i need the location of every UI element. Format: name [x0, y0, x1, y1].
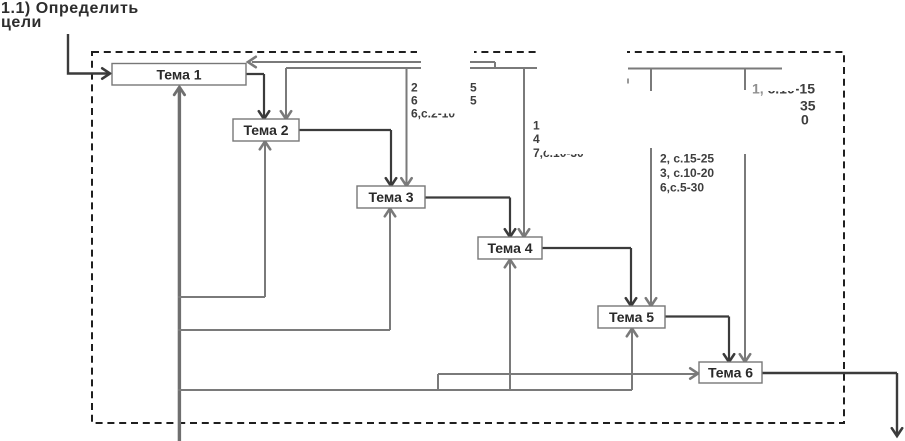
wire dark entry arrow into Тема 1	[68, 34, 109, 74]
node Тема 6	[699, 362, 762, 383]
label references left (partially erased)	[411, 81, 477, 121]
white patch over Тема 5 gray drop	[644, 91, 657, 148]
svg-text:1: 1	[533, 119, 540, 133]
wire gray feedback to Тема 4 bottom	[509, 260, 511, 390]
wire dark exit from Тема 6	[762, 373, 897, 435]
wire gray feedback to Тема 2 bottom	[178, 142, 265, 297]
wire dark Тема 4 to Тема 5	[542, 248, 631, 305]
wire gray drop into Тема 6 top	[744, 69, 746, 362]
svg-text:Тема 5: Тема 5	[609, 309, 654, 325]
wire gray return line A to Тема 1	[252, 62, 495, 69]
wire gray drop into Тема 4 top	[523, 68, 525, 236]
white patch over top border middle	[536, 44, 627, 60]
svg-text:5: 5	[470, 81, 477, 95]
wire dark Тема 1 to Тема 2	[246, 74, 264, 118]
node Тема 2	[233, 119, 299, 141]
svg-text:1,: 1,	[752, 81, 764, 97]
svg-text:Тема 2: Тема 2	[243, 122, 288, 138]
label references 2/3/6	[660, 152, 714, 195]
wire gray distribution line B	[286, 67, 537, 69]
svg-text:6,с.5-30: 6,с.5-30	[660, 181, 704, 195]
svg-text:3, с.10-20: 3, с.10-20	[660, 166, 714, 180]
arrow left into Тема 1 top-right	[248, 57, 256, 67]
white partial erase over small texts	[427, 105, 468, 114]
wire gray jog up to Тема 6 feed line	[437, 374, 439, 390]
wire dark Тема 3 to Тема 4	[425, 198, 510, 237]
label references middle (partially erased)	[533, 119, 584, 161]
svg-text:2: 2	[411, 81, 418, 95]
label references right (partially erased)	[752, 81, 816, 128]
svg-text:Тема 1: Тема 1	[156, 67, 201, 83]
node Тема 4	[478, 237, 542, 259]
node Тема 5	[598, 306, 665, 328]
tick mark	[627, 79, 629, 84]
svg-text:0: 0	[801, 112, 809, 128]
svg-text:цели: цели	[1, 14, 42, 31]
wire gray drop into Тема 2 top	[285, 68, 287, 118]
wire gray distribution line C (right section)	[628, 68, 782, 70]
white patch over left text block and border	[417, 44, 474, 59]
wire thick gray feedback trunk up into Тема 1 bottom	[178, 87, 181, 441]
svg-text:2, с.15-25: 2, с.15-25	[660, 152, 714, 166]
wire dark Тема 2 to Тема 3	[299, 130, 391, 185]
wire gray feedback to Тема 5 bottom	[631, 329, 633, 390]
svg-text:Тема 6: Тема 6	[708, 365, 753, 381]
wire gray feed into Тема 6 left	[438, 373, 697, 375]
svg-text:Тема 3: Тема 3	[368, 189, 413, 205]
wire gray feedback bus y=390	[178, 389, 632, 391]
white patch over Тема 6 gray drop	[738, 90, 751, 154]
svg-text:6: 6	[411, 94, 418, 108]
svg-text:4: 4	[533, 132, 540, 146]
wire dark Тема 5 to Тема 6	[665, 317, 729, 362]
wire gray feedback to Тема 3 bottom	[178, 209, 390, 330]
label title 1.1 Определить цели	[1, 0, 139, 31]
svg-text:5: 5	[470, 94, 477, 108]
wire gray drop into Тема 5 top	[650, 69, 652, 306]
node Тема 3	[357, 186, 425, 208]
node Тема 1	[112, 64, 246, 86]
wire gray drop into Тема 3 top	[406, 68, 408, 185]
svg-text:Тема 4: Тема 4	[487, 240, 532, 256]
dashed process border	[92, 52, 844, 423]
